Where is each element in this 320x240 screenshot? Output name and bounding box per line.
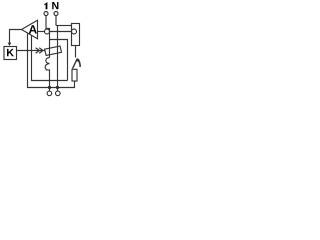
wire winding to test device	[50, 31, 72, 33]
test button blade hook	[77, 59, 80, 67]
secondary wire inner with return line	[32, 35, 68, 80]
bottom terminal 2	[47, 91, 52, 96]
test button stem	[75, 46, 77, 58]
bottom terminal N stub	[57, 88, 59, 92]
test resistor R	[72, 69, 77, 81]
junction dot pole N / bus	[56, 86, 59, 89]
test button blade apex fill	[76, 59, 79, 62]
test button blade	[73, 59, 78, 69]
bottom terminal N	[56, 91, 61, 96]
terminal label 1	[44, 2, 47, 9]
terminal 1	[44, 12, 48, 16]
sensing winding circle on pole 1	[45, 29, 50, 34]
terminal N	[54, 12, 58, 16]
compensation coil on pole 1	[45, 58, 49, 88]
current transformer toroid	[45, 46, 62, 56]
test device winding circle	[72, 29, 77, 34]
op-amp A triangle	[22, 20, 38, 39]
wire conductor pole 1	[46, 16, 50, 58]
direction chevron 1	[36, 48, 40, 53]
wire conductor pole N upper	[55, 16, 57, 26]
trip arrowhead	[8, 43, 12, 46]
wire conductor pole N lower	[57, 26, 59, 88]
wire N branch to test device	[56, 25, 72, 27]
op-amp label A	[29, 25, 37, 33]
bottom terminal 2 stub	[49, 88, 51, 92]
trip coil label K	[7, 49, 14, 56]
test device box	[72, 24, 80, 46]
secondary wire outer with bottom bus	[28, 33, 75, 88]
direction chevron 2	[39, 48, 43, 53]
trip coil K box	[4, 47, 17, 60]
junction dot pole 1 / bus	[48, 86, 51, 89]
wire K to transformer	[17, 50, 46, 52]
wire amplifier to winding	[38, 31, 45, 33]
trip wire from amplifier apex	[10, 30, 22, 43]
wire mid branch with right drop	[50, 40, 68, 81]
terminal label N	[52, 2, 58, 9]
